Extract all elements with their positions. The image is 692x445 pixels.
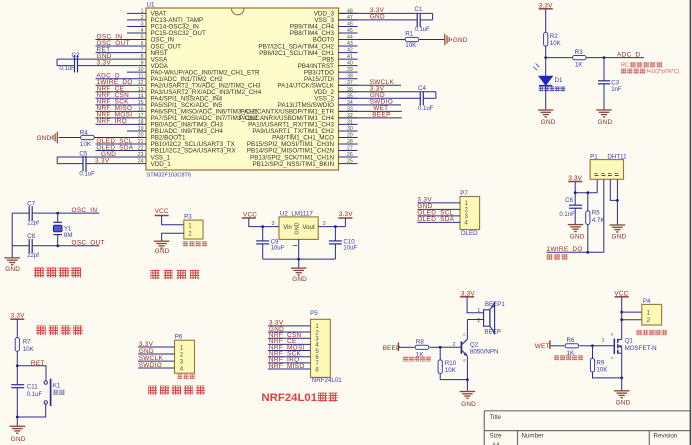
- svg-text:10uF: 10uF: [271, 246, 285, 252]
- junction at R5 branch: [586, 191, 589, 194]
- sheet right border: [689, 0, 691, 445]
- wire C11 to bottom rail: [16, 388, 18, 417]
- svg-text:40: 40: [347, 61, 353, 67]
- svg-text:25: 25: [347, 159, 353, 165]
- svg-text:OSC_IN: OSC_IN: [72, 207, 98, 214]
- junction bottom rail reset: [16, 416, 19, 419]
- svg-text:1nF: 1nF: [611, 87, 622, 93]
- svg-text:2: 2: [477, 318, 480, 324]
- op-amp U1 top notch: [232, 9, 244, 15]
- svg-text:0.1uF: 0.1uF: [418, 106, 434, 112]
- wire OSC_IN rail with C7: [12, 212, 29, 214]
- wire GND to P5 pin 2: [268, 331, 311, 333]
- junction R5 on 1WIRE_DQ: [586, 251, 589, 254]
- title block size-number divider: [517, 431, 519, 445]
- title block divider line: [484, 430, 690, 432]
- section title crystal circuit: [34, 268, 44, 278]
- capacitor C8: [28, 239, 30, 253]
- wire 3.3V rail to DHT11 pin 1: [575, 192, 597, 194]
- svg-text:28: 28: [347, 139, 353, 145]
- resistor R8: [415, 345, 429, 349]
- wire NRF_SCK to P5 pin 6: [268, 356, 311, 358]
- resistor R3: [573, 56, 587, 60]
- svg-text:Revision: Revision: [654, 432, 678, 439]
- section title reset circuit: [36, 326, 46, 336]
- svg-text:s: s: [611, 355, 613, 360]
- ground at U2: [291, 267, 307, 269]
- svg-text:1WIRE_DQ: 1WIRE_DQ: [547, 246, 583, 253]
- svg-text:0.1uF: 0.1uF: [79, 171, 95, 177]
- svg-text:C7: C7: [27, 200, 35, 207]
- crystal Y1: [53, 221, 62, 223]
- capacitor C1: [416, 13, 418, 27]
- connector P4 body: [642, 304, 662, 325]
- wire 3.3V to resistor R2: [545, 9, 547, 33]
- svg-text:10K: 10K: [596, 366, 608, 373]
- svg-text:18: 18: [138, 119, 144, 125]
- comment cutoff frequency text: [621, 69, 626, 74]
- svg-text:42: 42: [347, 48, 353, 54]
- U1 right pin stubs pins 48-25: [339, 13, 358, 163]
- svg-text:30: 30: [347, 126, 353, 132]
- svg-text:22pf: 22pf: [27, 221, 39, 227]
- wire 1WIRE_DQ net to pin 12: [96, 84, 128, 86]
- svg-text:GND: GND: [292, 276, 307, 283]
- svg-text:29: 29: [347, 132, 353, 138]
- svg-text:GND: GND: [612, 234, 627, 241]
- svg-text:STM32F103C8T6: STM32F103C8T6: [147, 173, 191, 179]
- wire C6 to ground: [574, 208, 576, 224]
- svg-text:WET: WET: [535, 343, 550, 350]
- svg-text:R2: R2: [550, 33, 558, 40]
- svg-text:0.1uF: 0.1uF: [27, 392, 43, 398]
- junction emitter rail: [466, 378, 469, 381]
- wire NRF_MOSI to P5 pin 5: [268, 350, 311, 352]
- svg-text:LM1117: LM1117: [291, 210, 313, 217]
- wire R5 to 1WIRE_DQ rail: [587, 224, 589, 252]
- wire RET net to pin 7: [96, 52, 128, 54]
- svg-text:K1: K1: [53, 383, 61, 390]
- svg-text:Number: Number: [522, 432, 544, 439]
- svg-text:17: 17: [138, 113, 144, 119]
- junction DHT11 pins 3-4: [616, 199, 619, 202]
- wire VCC to P3 pin 1: [162, 216, 184, 225]
- connector P5 body: [311, 319, 331, 377]
- wire NRF_IRQ to P5 pin 7: [268, 362, 311, 364]
- op-amp U1 body STM32F103C8T6: [146, 8, 339, 170]
- svg-text:C6: C6: [565, 197, 573, 204]
- svg-text:6: 6: [141, 41, 144, 47]
- wire 3.3V rail pin 36 to capacitor C4: [339, 91, 436, 93]
- wire node A to resistor R3: [546, 57, 572, 59]
- wire C2 left vertical: [56, 59, 58, 66]
- button K1 comment: [53, 390, 58, 395]
- svg-text:R10: R10: [445, 360, 457, 367]
- wire NRF_CSN to P5 pin 3: [268, 337, 311, 339]
- resistor R6: [565, 344, 579, 348]
- wire crystal left vertical to ground: [11, 213, 13, 258]
- svg-text:GND: GND: [5, 266, 20, 273]
- svg-text:3.3V: 3.3V: [139, 341, 154, 348]
- transistor Q1 MOSFET-N: [613, 339, 615, 355]
- wire C5 left vertical: [56, 157, 58, 164]
- svg-text:OLED_SDA: OLED_SDA: [417, 216, 454, 223]
- svg-text:NRF24L01: NRF24L01: [312, 377, 342, 384]
- svg-text:3: 3: [141, 21, 144, 27]
- wire P4 pin 2 to drain: [622, 319, 642, 321]
- wire 3.3V rail pin 48 to capacitor C1: [339, 12, 433, 14]
- title block left border: [483, 411, 485, 445]
- wire SWDIO to P6 pin 4: [138, 367, 175, 369]
- wire OSC_IN net to pin 5: [96, 39, 128, 41]
- wire WET net to pin 33: [339, 110, 402, 112]
- svg-text:0.1uF: 0.1uF: [415, 27, 431, 33]
- svg-text:46: 46: [347, 21, 353, 27]
- svg-text:C2: C2: [72, 52, 80, 59]
- comment one-wire bus text: [547, 254, 553, 260]
- svg-text:R4: R4: [80, 130, 88, 137]
- svg-text:43: 43: [347, 41, 353, 47]
- svg-text:GND: GND: [155, 248, 170, 255]
- junction P4 pin2 node: [620, 318, 623, 321]
- wire R1 to ground port: [419, 39, 445, 41]
- U1 left pin names: [151, 11, 262, 168]
- capacitor C9: [256, 240, 269, 242]
- wire OLED_SCL to P7 pin 3: [418, 215, 461, 217]
- wire base node down to resistor R10: [439, 347, 441, 360]
- svg-text:1: 1: [141, 8, 144, 14]
- wire NRF_CSN net to pin 14: [96, 97, 128, 99]
- wire RET node to button K1: [17, 366, 46, 381]
- wire down to capacitor C6: [574, 193, 576, 206]
- comment power input text: [183, 241, 188, 246]
- wire GND rail pin 47: [339, 19, 418, 21]
- wire BEEP net to pin 32: [339, 117, 402, 119]
- svg-text:U2: U2: [280, 210, 288, 217]
- junction gate node: [591, 344, 594, 347]
- resistor R9: [590, 358, 594, 372]
- svg-text:C4: C4: [418, 85, 426, 92]
- transistor Q2 8050 NPN: [460, 341, 462, 353]
- connector P1 DHT11 body: [590, 160, 623, 180]
- svg-text:21: 21: [138, 139, 144, 145]
- wire VCC to U2 Vin pin 3: [249, 218, 279, 227]
- junction at C6 branch: [574, 191, 577, 194]
- svg-text:3.3V: 3.3V: [11, 312, 25, 319]
- svg-text:C11: C11: [27, 383, 38, 390]
- wire GND to P6 pin 2: [138, 353, 175, 355]
- title block top line: [484, 410, 690, 412]
- junction RET node: [16, 364, 19, 367]
- wire R6 to gate node: [580, 345, 593, 347]
- svg-text:GND: GND: [294, 222, 300, 234]
- connector P6 body: [175, 340, 195, 373]
- wire bottom rail to ground: [16, 417, 18, 426]
- svg-text:41: 41: [347, 54, 353, 60]
- resistor R2: [544, 33, 548, 47]
- svg-text:R8: R8: [416, 339, 424, 346]
- svg-text:2: 2: [141, 15, 144, 21]
- svg-text:PB12/SPI2_NSS/TIM1_BKIN: PB12/SPI2_NSS/TIM1_BKIN: [252, 161, 334, 168]
- wire pin 44 BOOT0 to resistor R1: [339, 39, 406, 41]
- wire SWDIO net to pin 34: [339, 104, 402, 106]
- wire GND rail pin 23 to capacitor C5: [57, 156, 127, 158]
- svg-text:3: 3: [272, 221, 275, 227]
- wire 3.3V rail pin 9: [78, 65, 128, 67]
- wire base node to Q2 base: [440, 346, 461, 348]
- svg-text:BEEP: BEEP: [484, 328, 501, 335]
- junction P4 pin1 node: [620, 311, 623, 314]
- svg-text:2: 2: [453, 342, 456, 348]
- svg-text:26: 26: [347, 152, 353, 158]
- U1 left pin stubs pins 1-24: [127, 13, 146, 163]
- svg-text:24: 24: [138, 159, 144, 165]
- bottom ground rail of U2: [263, 258, 336, 260]
- ground at P3: [154, 240, 170, 242]
- svg-text:NRF_MISO: NRF_MISO: [269, 363, 305, 370]
- wire OLED_SDA net to pin 22: [96, 150, 128, 152]
- junction base node: [439, 346, 442, 349]
- wire U2 GND pin down: [298, 239, 300, 259]
- regulator U2 body: [279, 217, 318, 240]
- wire C4 right vertical: [435, 92, 437, 99]
- node A junction: [544, 56, 547, 59]
- wire button K1 to bottom rail: [17, 404, 45, 417]
- wire DHT11 pin 1 stub: [596, 179, 598, 192]
- svg-text:R7: R7: [23, 339, 31, 346]
- svg-text:22pf: 22pf: [27, 253, 39, 259]
- svg-text:3.3V: 3.3V: [339, 211, 353, 218]
- capacitor C5: [82, 156, 84, 171]
- comment high level on text at R6: [554, 355, 559, 360]
- wire OSC_OUT net to pin 6: [96, 45, 128, 47]
- wire C9 to bottom rail: [262, 244, 264, 259]
- resistor R1: [405, 37, 419, 41]
- capacitor C2: [74, 55, 76, 73]
- svg-text:Q1: Q1: [625, 338, 634, 345]
- wire D1 to ground: [545, 86, 547, 110]
- wire NRF_MOSI net to pin 17: [96, 117, 128, 119]
- svg-text:10K: 10K: [550, 40, 562, 47]
- connector P7 body: [460, 197, 480, 230]
- capacitor C3: [598, 80, 610, 82]
- svg-text:C1: C1: [415, 6, 423, 13]
- svg-text:C3: C3: [611, 80, 619, 87]
- wire 3.3V to resistor R7: [16, 319, 18, 338]
- photodiode D1: [539, 76, 552, 85]
- wire 3.3V rail pin 24: [86, 163, 127, 165]
- svg-text:MOSFET-N: MOSFET-N: [625, 345, 657, 352]
- wire NRF_MISO to P5 pin 8: [268, 368, 311, 370]
- svg-text:NRF_IRQ: NRF_IRQ: [97, 118, 128, 125]
- wire R3 to ADC_D net: [586, 57, 644, 59]
- svg-text:RC: RC: [621, 63, 629, 69]
- svg-text:GND: GND: [541, 119, 556, 126]
- svg-text:10K: 10K: [445, 367, 457, 374]
- svg-text:15: 15: [138, 100, 144, 106]
- wire node to capacitor C3: [603, 58, 605, 81]
- node C3 junction: [603, 56, 606, 59]
- wire drain vertical: [621, 312, 623, 339]
- wire SWCLK to P6 pin 3: [138, 360, 175, 362]
- svg-text:14: 14: [138, 93, 144, 99]
- svg-text:10K: 10K: [23, 346, 35, 353]
- svg-text:SWDIO: SWDIO: [139, 362, 162, 369]
- button K1: [44, 381, 47, 384]
- wire NRF_IRQ net to pin 18: [96, 123, 128, 125]
- svg-text:d: d: [611, 331, 613, 336]
- svg-text:C8: C8: [27, 233, 35, 240]
- svg-text:P6: P6: [175, 333, 183, 340]
- title block revision divider: [648, 431, 650, 445]
- photodiode D1 comment: [539, 87, 544, 92]
- wire DHT11 pin 3: [610, 179, 617, 200]
- section title power supply circuit: [151, 270, 160, 279]
- wire gate node to Q1 gate: [593, 345, 614, 347]
- svg-text:GND: GND: [461, 401, 476, 408]
- svg-text:BEEP1: BEEP1: [485, 301, 506, 308]
- wire GND to P7 pin 2: [418, 208, 461, 210]
- svg-text:10: 10: [138, 67, 144, 73]
- U1 right pin numbers 48-25: [347, 8, 353, 164]
- svg-text:4: 4: [141, 28, 144, 34]
- speaker BEEP1: [484, 310, 490, 326]
- wire R10 to emitter rail: [440, 374, 467, 380]
- wire ground rail to ground symbol: [298, 259, 300, 268]
- junction U2 ground rail: [297, 258, 300, 261]
- wire OLED_SDA to P7 pin 4: [418, 221, 461, 223]
- wire GND port to resistor R4: [59, 136, 82, 138]
- wire NRF_CE to P5 pin 4: [268, 343, 311, 345]
- svg-text:1: 1: [602, 338, 605, 344]
- ground at Q1: [614, 390, 630, 392]
- ground at Q2: [460, 391, 476, 393]
- wire NRF_SCK net to pin 15: [96, 104, 128, 106]
- svg-text:3.3V: 3.3V: [97, 59, 112, 66]
- wire C1 right vertical: [432, 13, 434, 20]
- comment atomizer port text: [637, 330, 642, 335]
- svg-text:5: 5: [141, 35, 144, 41]
- capacitor C4: [419, 92, 421, 105]
- U2 GND pin mark: [293, 245, 297, 247]
- svg-text:7: 7: [141, 48, 144, 54]
- svg-text:R1: R1: [405, 31, 413, 38]
- svg-text:8: 8: [141, 54, 144, 60]
- wire VCC down to P4 pin 1: [621, 297, 623, 312]
- wire 1WIRE_DQ rail: [547, 251, 604, 253]
- svg-text:10K: 10K: [405, 42, 417, 49]
- wire R2 to node A: [545, 46, 547, 58]
- svg-text:27: 27: [347, 146, 353, 152]
- resistor R5: [586, 211, 590, 225]
- wire BEEP port to resistor R8: [399, 346, 414, 348]
- comment download port text: [177, 374, 182, 379]
- svg-text:16: 16: [138, 106, 144, 112]
- ground at DHT11: [610, 224, 626, 226]
- svg-text:GND: GND: [139, 348, 154, 355]
- connector P3 body: [184, 220, 203, 239]
- wire R9 to source rail: [593, 372, 622, 378]
- svg-text:ADC_D: ADC_D: [617, 51, 640, 58]
- connector P1 pin marks: [595, 174, 619, 176]
- comment high level on text at R8: [403, 356, 408, 361]
- svg-text:GND: GND: [453, 37, 468, 44]
- junction C10 branch: [334, 225, 337, 228]
- wire RET node down to capacitor C11: [16, 366, 18, 385]
- wire SWCLK net to pin 37: [339, 84, 402, 86]
- svg-text:22: 22: [138, 146, 144, 152]
- svg-text:45: 45: [347, 28, 353, 34]
- svg-text:12: 12: [138, 80, 144, 86]
- svg-text:Q2: Q2: [470, 341, 479, 348]
- svg-text:C5: C5: [79, 151, 87, 158]
- wire Q2 emitter down to ground: [466, 356, 468, 391]
- svg-text:1: 1: [477, 308, 480, 314]
- svg-text:Size: Size: [490, 432, 503, 439]
- wire Q2 collector up to speaker: [466, 320, 468, 340]
- capacitor C6: [569, 204, 582, 206]
- wire to P4 pin 1: [622, 311, 642, 313]
- ground at C3: [596, 109, 612, 111]
- junction C9 branch: [261, 225, 264, 228]
- svg-text:10uF: 10uF: [343, 246, 357, 252]
- junction crystal top: [56, 212, 59, 215]
- resistor R7: [15, 338, 19, 352]
- svg-text:19: 19: [138, 126, 144, 132]
- svg-text:R6: R6: [567, 337, 575, 344]
- svg-text:R9: R9: [596, 359, 604, 366]
- svg-text:0.1uF: 0.1uF: [60, 66, 76, 72]
- wire DHT11 pin 4 to ground: [616, 179, 618, 225]
- svg-text:2: 2: [323, 221, 326, 227]
- wire GND rail pin 8 to capacitor C2: [57, 58, 127, 60]
- svg-text:23: 23: [138, 152, 144, 158]
- svg-text:OSC_OUT: OSC_OUT: [72, 239, 105, 246]
- wire crystal bottom branch: [57, 235, 59, 246]
- wire OSC_OUT rail with C8: [12, 245, 29, 247]
- wire 3.3V to P7 pin 1: [418, 202, 461, 204]
- ground at C6: [568, 224, 584, 226]
- svg-text:GND: GND: [616, 400, 631, 407]
- svg-text:c: c: [463, 332, 465, 337]
- svg-text:20: 20: [138, 132, 144, 138]
- svg-text:GND: GND: [370, 14, 385, 21]
- wire node A to photodiode D1: [545, 58, 547, 76]
- wire R4 to pin 20: [94, 136, 127, 138]
- junction crystal bottom: [56, 244, 59, 247]
- svg-text:VDD_1: VDD_1: [151, 161, 172, 168]
- wire 3.3V to speaker pin 1: [467, 297, 484, 313]
- wire speaker pin 2 to collector: [467, 319, 483, 321]
- wire 3.3V drop at U2 output: [344, 218, 346, 227]
- wire crystal top branch: [57, 213, 59, 222]
- svg-text:31: 31: [347, 119, 353, 125]
- wire source vertical: [621, 346, 623, 391]
- svg-text:GND: GND: [570, 234, 585, 241]
- svg-text:R3: R3: [575, 49, 583, 56]
- svg-text:39: 39: [347, 67, 353, 73]
- wire U2 Vout pin 2 to 3.3V: [318, 226, 345, 228]
- wire gate node down to resistor R9: [592, 346, 594, 359]
- wire P3 pin 2 to ground: [162, 233, 184, 241]
- junction source rail: [620, 377, 623, 380]
- wire 3.3V down to rail: [574, 182, 576, 193]
- svg-text:1K: 1K: [575, 62, 583, 69]
- svg-text:0.1nF: 0.1nF: [559, 212, 575, 218]
- wire NRF_CE net to pin 13: [96, 91, 128, 93]
- wire C10 branch down: [334, 227, 336, 241]
- resistor R10: [438, 360, 442, 374]
